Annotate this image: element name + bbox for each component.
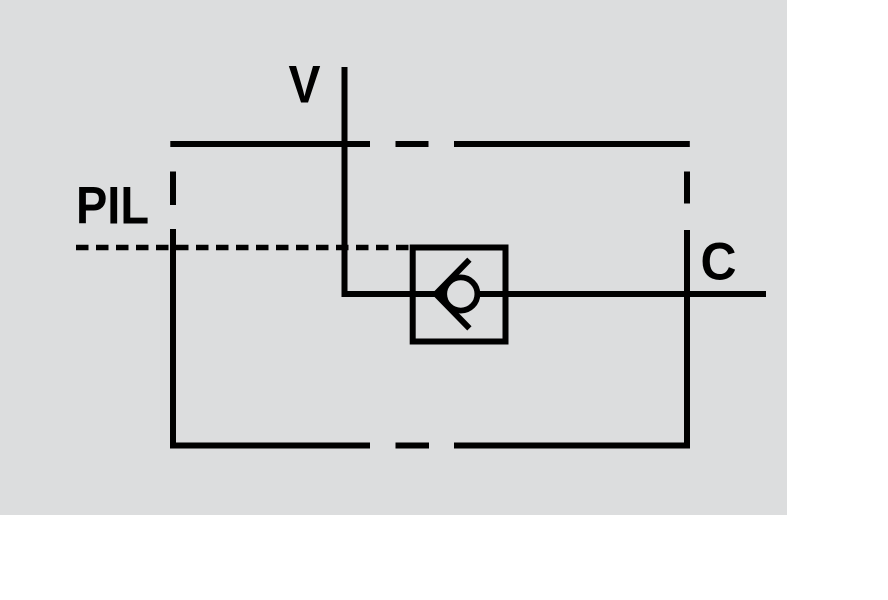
wire: enclosure bottom edge dash — [396, 443, 430, 449]
wire: V port vertical drop into valve line — [345, 67, 446, 294]
wire: C port line — [477, 291, 766, 297]
svg-text:PIL: PIL — [76, 177, 149, 236]
wire: enclosure left edge + bottom left segment — [173, 229, 370, 446]
wire: PIL pilot dashed line — [76, 245, 410, 251]
wire: enclosure left edge dash — [170, 172, 176, 206]
check valve V1 enclosure box — [413, 248, 506, 342]
svg-text:C: C — [701, 233, 737, 292]
wire: enclosure bottom edge right segment + right edge — [454, 230, 687, 446]
wire: enclosure top edge left segment — [170, 141, 370, 147]
check valve V1 ball — [444, 277, 477, 310]
gray panel background — [0, 0, 787, 515]
check valve V1 seat — [436, 260, 470, 329]
wire: enclosure right edge dash — [684, 172, 690, 204]
wire: enclosure top edge dash — [396, 141, 429, 147]
wire: enclosure top edge right segment — [454, 141, 690, 147]
svg-text:V: V — [289, 56, 321, 115]
